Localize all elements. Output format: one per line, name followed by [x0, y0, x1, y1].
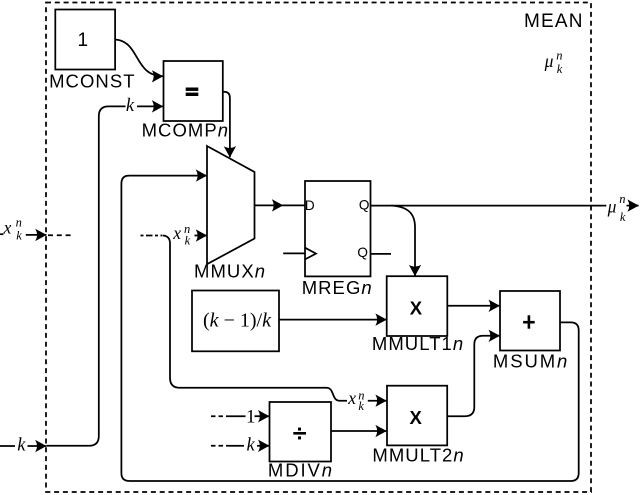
- svg-text:μ: μ: [607, 197, 617, 217]
- svg-text:n: n: [619, 192, 625, 206]
- svg-text:1: 1: [246, 406, 256, 427]
- svg-text:μ: μ: [544, 51, 554, 71]
- svg-text:k: k: [358, 399, 364, 413]
- svg-text:k: k: [126, 96, 135, 116]
- wire dash-dot into x node: [141, 235, 163, 237]
- svg-text:k: k: [620, 210, 626, 224]
- input k (bottom left): [0, 445, 15, 447]
- svg-text:k: k: [16, 229, 22, 243]
- node x_k^n at MMUX input: [172, 222, 190, 248]
- register MREG n: [305, 181, 371, 276]
- wire MMULT2 to MSUM: [447, 336, 500, 416]
- svg-text:k: k: [557, 62, 563, 76]
- svg-text:k: k: [185, 234, 191, 248]
- svg-text:k: k: [247, 435, 256, 455]
- svg-text:X: X: [410, 297, 423, 318]
- input k to MDIV: [211, 445, 229, 447]
- svg-text:MCONST: MCONST: [49, 70, 135, 91]
- wire MMULT1 to MSUM: [447, 305, 499, 307]
- adder MSUM n: [500, 291, 560, 351]
- mux MMUX n: [207, 146, 255, 264]
- output mu_k^n: [607, 192, 626, 224]
- svg-text:x: x: [172, 223, 181, 243]
- wire (k-1)/k to MMULT1: [279, 319, 387, 321]
- svg-text:n: n: [16, 215, 22, 229]
- node x_k^n at MMULT2 input: [347, 388, 364, 413]
- input x_k^n (left): [0, 233, 3, 235]
- wire MDIV to MMULT2: [331, 430, 387, 432]
- svg-text:MSUMn: MSUMn: [493, 351, 569, 372]
- svg-text:MREGn: MREGn: [302, 277, 373, 298]
- svg-text:MMUXn: MMUXn: [194, 261, 266, 282]
- svg-text:(k − 1)/k: (k − 1)/k: [203, 309, 272, 331]
- svg-text:Q: Q: [357, 245, 368, 260]
- svg-text:k: k: [17, 435, 26, 455]
- wire MREG Q to output: [371, 205, 607, 207]
- node mu_k^n internal label: [544, 48, 563, 76]
- constant MCONST: [55, 10, 115, 70]
- svg-text:D: D: [305, 198, 315, 213]
- wire k up to MCOMP: [47, 106, 126, 445]
- svg-text:MEAN: MEAN: [524, 11, 584, 32]
- svg-text:MDIVn: MDIVn: [268, 460, 334, 481]
- divider MDIV n: [270, 402, 332, 462]
- svg-text:1: 1: [78, 30, 89, 51]
- multiplier MMULT2 n: [387, 386, 447, 446]
- svg-text:MMULT1n: MMULT1n: [372, 333, 464, 354]
- pin Qbar stub: [371, 253, 392, 255]
- wire x branch down to MMULT2: [163, 236, 348, 401]
- wire MMUX to MREG D: [255, 204, 284, 206]
- wire feedback MSUM to MMUX: [121, 176, 578, 481]
- wire dashed x continuation: [48, 234, 71, 236]
- svg-text:Q: Q: [359, 197, 370, 212]
- wire MCONST to MCOMP: [115, 40, 163, 77]
- svg-text:MMULT2n: MMULT2n: [372, 445, 464, 466]
- svg-text:n: n: [556, 48, 562, 62]
- svg-text:x: x: [347, 388, 356, 408]
- clock pin: [283, 252, 305, 254]
- wire branch Q down to MMULT1: [391, 206, 415, 276]
- svg-text:MCOMPn: MCOMPn: [142, 119, 230, 140]
- input 1 to MDIV: [211, 415, 229, 417]
- wire MCOMP to MMUX select: [223, 92, 230, 158]
- svg-text:x: x: [3, 218, 12, 238]
- constant (k-1)/k: [192, 291, 279, 352]
- comparator MCOMP n: [164, 61, 223, 121]
- svg-text:X: X: [410, 407, 423, 428]
- multiplier MMULT1 n: [387, 276, 448, 336]
